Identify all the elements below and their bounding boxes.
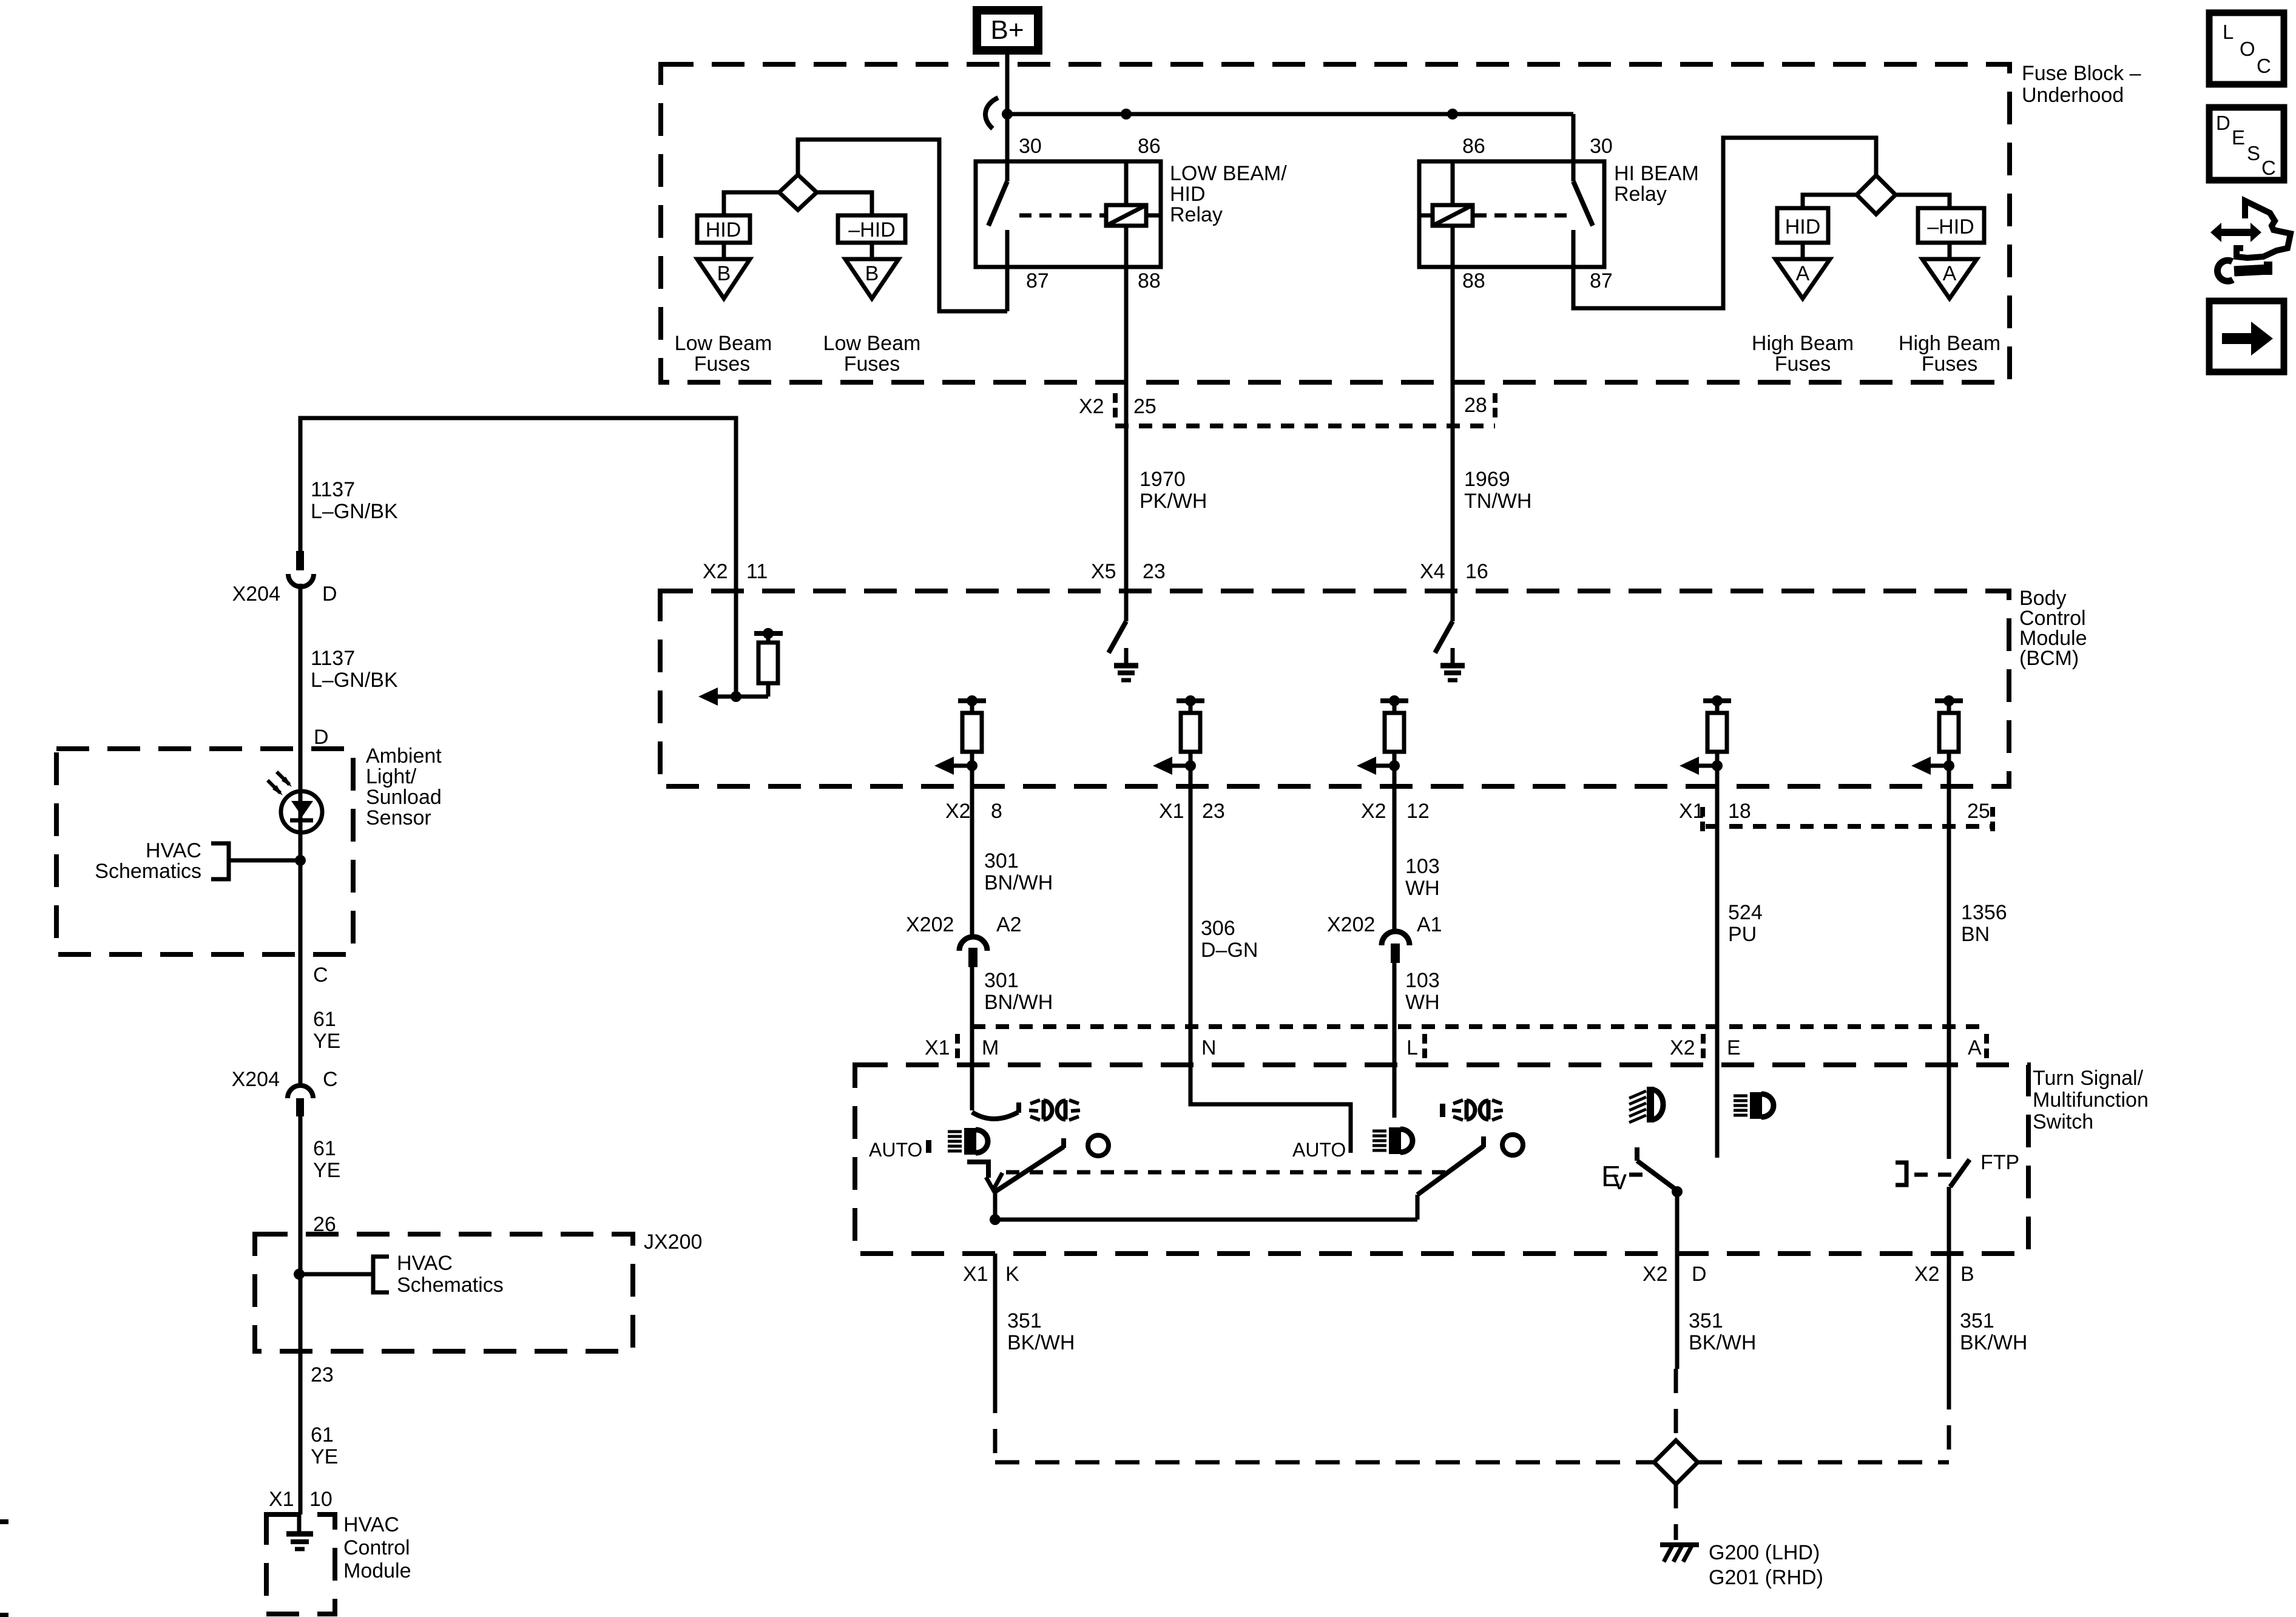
- node bus junction at B+: [1002, 109, 1013, 120]
- svg-text:X2: X2: [1361, 800, 1386, 823]
- light arrows into photodiode: [268, 780, 280, 793]
- switch 2 blade: [1416, 1195, 1420, 1220]
- wire 103 WH upper: [1393, 766, 1397, 930]
- svg-text:X2: X2: [1670, 1036, 1695, 1059]
- wire tap to HVAC schematics (JX200): [299, 1272, 373, 1277]
- svg-text:HID: HID: [1170, 183, 1206, 206]
- headlamp icon at X2-E wire: [1734, 1092, 1774, 1119]
- HID fuse box (high): [1777, 208, 1828, 243]
- wire tap to photodiode cathode: [229, 859, 300, 863]
- fuse triangle A (high, HID): [1775, 259, 1830, 299]
- svg-text:G201 (RHD): G201 (RHD): [1709, 1566, 1823, 1589]
- wire switch output bus: [995, 1218, 1417, 1222]
- svg-text:(BCM): (BCM): [2019, 647, 2079, 670]
- svg-text:PU: PU: [1728, 923, 1757, 946]
- svg-text:X1: X1: [925, 1036, 950, 1059]
- svg-text:WH: WH: [1405, 877, 1440, 900]
- svg-text:B+: B+: [990, 15, 1024, 45]
- svg-text:YE: YE: [313, 1159, 340, 1182]
- BCM input with pull-up (X2-11): [731, 691, 741, 702]
- svg-text:D: D: [2216, 112, 2230, 134]
- node switch 1 output junction: [993, 1190, 998, 1220]
- svg-text:HID: HID: [1785, 215, 1821, 238]
- svg-text:X2: X2: [703, 560, 728, 583]
- svg-text:Module: Module: [343, 1559, 411, 1582]
- svg-text:X2: X2: [1643, 1263, 1668, 1286]
- LOC reference box: [2209, 13, 2284, 84]
- svg-text:X202: X202: [1327, 913, 1375, 936]
- node switch 3 pivot: [1672, 1186, 1683, 1197]
- svg-text:Control: Control: [343, 1536, 410, 1559]
- off position O (switch 1): [1088, 1135, 1109, 1156]
- BCM output driver with pull-up (25): [1911, 695, 1963, 775]
- svg-text:PK/WH: PK/WH: [1140, 490, 1207, 513]
- svg-text:HVAC: HVAC: [397, 1252, 453, 1275]
- -HID fuse box (low): [838, 215, 905, 243]
- switch 1 wiper arc to flash contact: [972, 1112, 1018, 1119]
- svg-text:61: 61: [311, 1423, 334, 1447]
- svg-text:23: 23: [1143, 560, 1166, 583]
- wire -HID box to fuse B: [870, 243, 874, 259]
- svg-text:HI BEAM: HI BEAM: [1614, 162, 1699, 185]
- wire HID box to fuse B: [722, 243, 726, 259]
- svg-text:351: 351: [1689, 1309, 1723, 1332]
- svg-text:Fuses: Fuses: [1775, 353, 1831, 376]
- svg-text:88: 88: [1462, 269, 1485, 292]
- svg-text:L: L: [1406, 1036, 1418, 1059]
- wire 61 YE mid: [299, 1116, 303, 1234]
- FTP contact bracket: [1896, 1163, 1906, 1185]
- connector X204 pin D: [296, 551, 304, 570]
- svg-text:O: O: [2240, 38, 2255, 60]
- connector X204 pin C: [299, 954, 303, 1084]
- wire B+ to relay pin 30: [1005, 50, 1010, 161]
- svg-text:8: 8: [991, 800, 1002, 823]
- dashed wire 351 to splice (middle): [1674, 1369, 1678, 1440]
- svg-text:AUTO: AUTO: [1292, 1139, 1346, 1161]
- svg-text:X5: X5: [1091, 560, 1116, 583]
- svg-text:12: 12: [1406, 800, 1430, 823]
- wire -HID high to fuse A: [1948, 243, 1952, 259]
- BCM output driver with pull-up (X2-12): [1357, 695, 1408, 775]
- svg-text:High Beam: High Beam: [1752, 332, 1854, 355]
- fuse triangle A (high, -HID): [1922, 259, 1977, 299]
- svg-text:D: D: [314, 726, 329, 749]
- chassis ground G200/G201: [1660, 1542, 1699, 1547]
- turn signal/multifunction switch box: [855, 1065, 2028, 1254]
- relay actuation dashed link (hi): [1474, 214, 1572, 218]
- svg-text:86: 86: [1462, 135, 1485, 158]
- svg-text:JX200: JX200: [644, 1230, 702, 1254]
- -HID fuse box (high): [1918, 208, 1984, 243]
- wire 306 D-GN: [1190, 766, 1351, 1153]
- svg-text:C: C: [2257, 55, 2271, 77]
- splice diamond (high beam fuses): [1857, 175, 1896, 214]
- svg-text:87: 87: [1026, 269, 1049, 292]
- diagnostic hand-wrench icon: [2210, 223, 2221, 242]
- BCM internal switch to ground (X4-16): [1435, 621, 1453, 653]
- splice diamond (low beam fuses): [779, 175, 817, 210]
- svg-text:10: 10: [309, 1488, 333, 1511]
- svg-text:B: B: [865, 262, 879, 285]
- svg-text:X4: X4: [1420, 560, 1445, 583]
- svg-text:X1: X1: [1159, 800, 1184, 823]
- BCM internal switch to ground (X5-23): [1109, 621, 1126, 653]
- svg-text:X1: X1: [269, 1488, 294, 1511]
- fuse triangle B (low, -HID): [845, 259, 899, 299]
- svg-text:Schematics: Schematics: [95, 860, 201, 883]
- switch 3 contact tick: [1635, 1147, 1639, 1161]
- svg-text:1970: 1970: [1140, 468, 1186, 491]
- svg-text:L–GN/BK: L–GN/BK: [311, 669, 398, 692]
- svg-text:Relay: Relay: [1614, 183, 1667, 206]
- BCM output driver with pull-up (X2-8): [934, 695, 986, 775]
- flash-to-pass icon (switch 1): [1029, 1100, 1080, 1120]
- svg-text:11: 11: [746, 560, 768, 583]
- node sensor tap junction: [295, 855, 306, 866]
- svg-text:23: 23: [1202, 800, 1225, 823]
- svg-text:L: L: [2223, 21, 2234, 43]
- wire 351 BK/WH (B): [1947, 1254, 1951, 1385]
- svg-text:61: 61: [313, 1008, 336, 1031]
- svg-text:Sunload: Sunload: [366, 786, 442, 809]
- svg-text:A2: A2: [996, 913, 1022, 936]
- switch 1 blade: [995, 1147, 1064, 1192]
- svg-text:B: B: [1960, 1263, 1974, 1286]
- svg-text:301: 301: [984, 969, 1019, 992]
- dashed wire splice to ground: [1674, 1484, 1678, 1540]
- AUTO contact tick (switch 1): [926, 1140, 931, 1153]
- fuse block - underhood (dashed enclosure): [661, 64, 2010, 382]
- off position O (switch 2): [1502, 1135, 1523, 1155]
- svg-text:LOW BEAM/: LOW BEAM/: [1170, 162, 1287, 185]
- svg-text:A1: A1: [1417, 913, 1442, 936]
- svg-text:YE: YE: [311, 1445, 338, 1468]
- svg-text:Turn Signal/: Turn Signal/: [2033, 1067, 2144, 1090]
- wire 351 BK/WH (D): [1675, 1254, 1680, 1369]
- svg-text:N: N: [1201, 1036, 1217, 1059]
- svg-text:X202: X202: [906, 913, 954, 936]
- svg-text:16: 16: [1465, 560, 1488, 583]
- dashed wire 351 to ground splice (right): [1947, 1385, 1951, 1462]
- svg-text:M: M: [982, 1036, 999, 1059]
- svg-text:X2: X2: [945, 800, 971, 823]
- fuse triangle B (low, HID): [697, 259, 750, 299]
- relay LOW BEAM/HID Relay body: [976, 161, 1161, 267]
- svg-text:BN/WH: BN/WH: [984, 871, 1053, 894]
- svg-text:A: A: [1796, 262, 1810, 285]
- svg-text:–HID: –HID: [1927, 215, 1974, 238]
- dashed wire 351 to ground splice (left): [993, 1389, 998, 1462]
- svg-text:D–GN: D–GN: [1201, 939, 1258, 962]
- svg-text:D: D: [1692, 1263, 1707, 1286]
- ground in HVAC control module: [297, 1514, 302, 1534]
- wire splice to HID low fuse: [724, 192, 779, 215]
- wire HID high to fuse A: [1801, 243, 1805, 259]
- svg-text:C: C: [313, 964, 328, 987]
- svg-text:Fuses: Fuses: [694, 353, 751, 376]
- wire relay 87 to low beam fuse splice: [1005, 267, 1010, 311]
- svg-text:25: 25: [1133, 395, 1156, 418]
- svg-text:High Beam: High Beam: [1899, 332, 2001, 355]
- svg-text:18: 18: [1728, 800, 1751, 823]
- svg-text:S: S: [2247, 142, 2260, 164]
- wire 103 WH lower: [1393, 963, 1397, 1118]
- headlamps-on icon (switch 1): [948, 1128, 988, 1155]
- svg-text:Low Beam: Low Beam: [675, 332, 772, 355]
- svg-text:BK/WH: BK/WH: [1960, 1331, 2027, 1354]
- svg-text:HVAC: HVAC: [146, 839, 201, 862]
- svg-text:YE: YE: [313, 1030, 340, 1053]
- svg-text:1356: 1356: [1961, 901, 2007, 924]
- svg-text:Sensor: Sensor: [366, 806, 431, 829]
- wire FTP to X2-B: [1947, 1187, 1951, 1254]
- svg-text:B: B: [717, 262, 731, 285]
- svg-text:E: E: [1727, 1036, 1741, 1059]
- connector X202 pin A2: [959, 937, 987, 951]
- svg-text:86: 86: [1138, 135, 1161, 158]
- svg-text:88: 88: [1138, 269, 1161, 292]
- svg-text:Schematics: Schematics: [397, 1274, 504, 1297]
- svg-text:30: 30: [1590, 135, 1613, 158]
- svg-text:L–GN/BK: L–GN/BK: [311, 500, 398, 523]
- svg-text:FTP: FTP: [1980, 1151, 2019, 1174]
- svg-text:103: 103: [1405, 855, 1440, 878]
- svg-text:1137: 1137: [311, 647, 355, 670]
- wire splice to -HID low fuse: [817, 192, 872, 215]
- connector X202 pin A1: [1382, 931, 1410, 945]
- wire switch 3 to X2-D: [1675, 1192, 1680, 1254]
- splice diamond G200 feed: [1654, 1440, 1698, 1484]
- svg-text:87: 87: [1590, 269, 1613, 292]
- svg-text:A: A: [1943, 262, 1957, 285]
- svg-text:X2: X2: [1079, 395, 1104, 418]
- flash contact tick (switch 2): [1440, 1104, 1445, 1117]
- junction block JX200 box: [255, 1234, 633, 1351]
- svg-text:–HID: –HID: [848, 218, 895, 241]
- wire through sensor: [299, 749, 303, 954]
- relay actuation dashed link (low): [1019, 214, 1106, 218]
- svg-text:Multifunction: Multifunction: [2033, 1089, 2149, 1112]
- bracket to HVAC schematics (sensor): [211, 843, 229, 879]
- svg-text:X204: X204: [232, 582, 280, 606]
- wire 1137 L-GN/BK lower: [299, 584, 303, 749]
- svg-text:X204: X204: [232, 1068, 280, 1091]
- svg-text:BK/WH: BK/WH: [1689, 1331, 1756, 1354]
- HID fuse box (low): [697, 215, 750, 243]
- fog link dash: [1629, 1173, 1646, 1177]
- svg-text:E: E: [2232, 126, 2245, 149]
- svg-text:1969: 1969: [1464, 468, 1510, 491]
- svg-text:351: 351: [1007, 1309, 1042, 1332]
- relay coil (low beam relay): [1106, 205, 1146, 226]
- B+ battery feed terminal: [977, 10, 1038, 50]
- relay coil (hi beam relay): [1433, 205, 1473, 226]
- wire 351 BK/WH (K): [993, 1254, 998, 1389]
- wire 301 BN/WH lower: [970, 967, 974, 1110]
- mechanical link dotted line (switch 1-2): [1006, 1170, 1450, 1175]
- node JX200 tap junction: [294, 1269, 305, 1280]
- off-road contact bracket and V (switch 1): [967, 1162, 988, 1178]
- bracket to HVAC schematics (JX200): [373, 1257, 389, 1292]
- svg-text:Light/: Light/: [366, 765, 417, 788]
- svg-text:AUTO: AUTO: [869, 1139, 922, 1161]
- wire 1970 PK/WH: [1124, 267, 1129, 621]
- relay switch blade (hi beam relay): [1572, 161, 1576, 181]
- svg-text:G200 (LHD): G200 (LHD): [1709, 1541, 1820, 1564]
- svg-text:Fuses: Fuses: [844, 353, 900, 376]
- flash-to-pass icon (switch 2): [1452, 1100, 1503, 1120]
- svg-text:v: v: [1613, 1164, 1627, 1195]
- svg-text:TN/WH: TN/WH: [1464, 490, 1531, 513]
- node low relay coil tap: [1121, 109, 1132, 120]
- svg-text:HID: HID: [706, 218, 741, 241]
- svg-text:X2: X2: [1914, 1263, 1940, 1286]
- svg-text:X1: X1: [963, 1263, 988, 1286]
- schematic arrow reference box: [2209, 301, 2284, 372]
- wire relay 87 (hi) to high beam fuse splice: [1573, 138, 1876, 308]
- relay HI BEAM Relay body: [1419, 161, 1604, 267]
- svg-text:103: 103: [1405, 969, 1440, 992]
- svg-text:Relay: Relay: [1170, 203, 1223, 226]
- page edge tick marks: [0, 1519, 8, 1524]
- svg-text:WH: WH: [1405, 991, 1440, 1014]
- wire 61 YE lower: [299, 1351, 303, 1514]
- HVAC control module box: [266, 1514, 335, 1614]
- svg-text:30: 30: [1019, 135, 1042, 158]
- BCM output driver with pull-up (X1-18): [1680, 695, 1731, 775]
- wire 1137 L-GN/BK feed: [300, 418, 736, 697]
- svg-text:301: 301: [984, 849, 1019, 873]
- svg-text:61: 61: [313, 1137, 336, 1160]
- fusible link hook symbol: [985, 98, 998, 129]
- FTP switch blade: [1950, 1160, 1970, 1187]
- wire 1969 TN/WH: [1451, 267, 1455, 621]
- svg-text:C: C: [323, 1068, 338, 1091]
- svg-text:524: 524: [1728, 901, 1763, 924]
- connector X2 dotted row line: [1115, 424, 1495, 428]
- svg-text:28: 28: [1464, 394, 1487, 417]
- svg-text:HVAC: HVAC: [343, 1513, 399, 1536]
- svg-text:K: K: [1005, 1263, 1019, 1286]
- switch 3 blade: [1637, 1161, 1677, 1190]
- wire through JX200: [299, 1234, 303, 1351]
- svg-text:BN: BN: [1961, 923, 1990, 946]
- svg-text:1137: 1137: [311, 478, 355, 501]
- wire B+ bus to HI BEAM relay: [1007, 112, 1573, 116]
- wire 1356 BN: [1947, 766, 1951, 1159]
- svg-text:Underhood: Underhood: [2022, 84, 2124, 107]
- svg-text:Switch: Switch: [2033, 1110, 2093, 1133]
- wire 524 PU: [1715, 766, 1720, 1158]
- svg-text:Ambient: Ambient: [366, 744, 442, 768]
- svg-text:BK/WH: BK/WH: [1007, 1331, 1075, 1354]
- svg-text:25: 25: [1967, 800, 1990, 823]
- svg-text:Low Beam: Low Beam: [823, 332, 921, 355]
- photodiode sensor element: [281, 791, 322, 832]
- relay switch blade (low beam relay): [1005, 161, 1010, 181]
- svg-text:351: 351: [1960, 1309, 1994, 1332]
- body control module (BCM) box: [660, 591, 2009, 786]
- svg-text:306: 306: [1201, 917, 1235, 940]
- svg-text:C: C: [2261, 157, 2276, 179]
- BCM output driver with pull-up (X1-23): [1153, 695, 1204, 775]
- wire splice to -HID high fuse: [1896, 195, 1950, 208]
- svg-text:23: 23: [311, 1363, 334, 1386]
- connector X1 dotted row line (18-25): [1706, 824, 1992, 829]
- FTP link dashes: [1914, 1173, 1953, 1177]
- svg-text:D: D: [322, 582, 337, 606]
- wire splice to HID high fuse: [1803, 195, 1857, 208]
- headlamps-on icon (switch 2): [1373, 1127, 1413, 1154]
- svg-text:Fuse Block –: Fuse Block –: [2022, 62, 2141, 85]
- svg-text:BN/WH: BN/WH: [984, 991, 1053, 1014]
- switch connector dotted row: [972, 1024, 1984, 1029]
- svg-text:A: A: [1968, 1036, 1982, 1059]
- DESC reference box: [2209, 107, 2284, 180]
- svg-text:Fuses: Fuses: [1922, 353, 1978, 376]
- fog lamp icon (switch 3): [1629, 1087, 1663, 1122]
- ambient light/sunload sensor box: [56, 749, 353, 954]
- wire 301 BN/WH upper: [970, 766, 974, 934]
- node hi relay coil tap: [1447, 109, 1458, 120]
